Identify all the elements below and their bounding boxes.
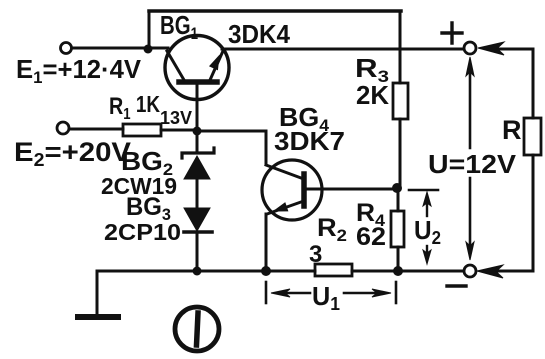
diode BG3 triangle <box>184 208 210 231</box>
wire BG3 to bottom rail <box>196 233 199 271</box>
wire bottom rail left of R2 <box>97 270 315 273</box>
svg-text:3DK4: 3DK4 <box>228 19 290 49</box>
transistor BG4 emitter lead <box>267 202 301 214</box>
arrow into minus terminal <box>477 265 503 278</box>
resistor R3 <box>393 83 408 119</box>
resistor R2 <box>315 264 352 276</box>
svg-text:2K: 2K <box>356 80 389 110</box>
arrow U=12V lower shaft <box>469 178 472 252</box>
resistor R load <box>524 118 541 155</box>
wire R4 top stem <box>397 189 400 211</box>
minus sign symbol <box>447 284 466 287</box>
svg-text:U1: U1 <box>312 281 340 314</box>
wire E2 terminal to R1 <box>70 128 123 131</box>
transistor BG4 emitter arrow <box>274 203 288 211</box>
terminal E2 <box>57 122 69 134</box>
svg-text:R: R <box>502 115 522 145</box>
transistor BG1 collector lead <box>167 51 184 80</box>
svg-text:R1 1K: R1 1K <box>109 91 160 123</box>
tick U2 top <box>409 189 438 192</box>
tick U1 right <box>395 282 398 303</box>
arrow U2 down head <box>423 250 431 264</box>
wire left vertical from top rail to E1 junction <box>148 11 151 48</box>
transistor BG4 collector lead <box>266 165 301 178</box>
transistor BG4 circle <box>262 160 322 220</box>
terminal E1 <box>61 43 72 54</box>
svg-text:BG1: BG1 <box>160 10 198 43</box>
resistor R4 <box>391 211 404 247</box>
ground bar <box>78 314 118 320</box>
wire right vertical upper to load R <box>532 155 535 271</box>
junction dot zener bottom <box>193 267 202 276</box>
arrow U2 down shaft <box>426 246 428 256</box>
junction dot BG4 emitter at rail <box>261 266 271 276</box>
wire R4 bottom stem <box>397 247 400 271</box>
svg-text:E1=+12·4V: E1=+12·4V <box>16 54 142 87</box>
arrow U1 right shaft <box>344 292 384 295</box>
transistor BG1 emitter arrow <box>210 56 219 70</box>
wire zener top stem <box>196 131 199 152</box>
wire top rail E1 bus <box>149 9 401 13</box>
wire right vertical top to plus arrow <box>496 49 533 118</box>
svg-text:2CP10: 2CP10 <box>104 219 181 245</box>
junction dot R4 bottom at rail <box>393 266 403 276</box>
arrow into plus terminal <box>478 42 504 55</box>
svg-text:3: 3 <box>309 241 322 268</box>
wire minus terminal to right vertical <box>496 270 533 273</box>
wire BG1 emitter to + terminal <box>222 48 464 51</box>
junction node 13V <box>193 127 202 136</box>
svg-text:U2: U2 <box>414 215 441 248</box>
svg-text:3DK7: 3DK7 <box>274 126 345 156</box>
resistor R1 <box>123 124 161 136</box>
wire bottom rail right of R2 to minus terminal <box>352 270 464 273</box>
transistor BG4 base bar <box>301 174 307 206</box>
transistor BG1 emitter lead <box>210 51 223 80</box>
wire BG4 base to R3/R4 node <box>305 188 397 191</box>
junction dot E1/collector <box>144 45 153 54</box>
terminal minus output <box>464 265 476 277</box>
arrow U1 right head <box>372 289 391 297</box>
figure number circled 1 <box>175 307 219 351</box>
arrow U2 up <box>426 200 428 216</box>
arrow U=12V upper shaft <box>469 64 472 148</box>
arrow U1 left shaft <box>284 292 310 295</box>
svg-text:U=12V: U=12V <box>428 149 517 179</box>
svg-text:13V: 13V <box>160 108 192 128</box>
wire 13V node to BG4 collector corner <box>197 131 266 164</box>
arrow U=12V down head <box>466 242 474 260</box>
svg-text:E2=+20V: E2=+20V <box>14 137 131 170</box>
transistor BG1 circle <box>165 36 229 100</box>
wire BG1 base lead down to 13V node <box>196 85 199 131</box>
wire E1 terminal to junction to BG1 collector <box>72 47 168 50</box>
arrow U2 up head <box>423 192 431 206</box>
wire R1 to 13V node <box>161 129 197 132</box>
svg-text:62: 62 <box>356 223 386 251</box>
wire R3 bottom to node <box>399 119 402 189</box>
figure number bar <box>197 313 199 345</box>
diode BG2 zener cathode bar <box>182 148 214 158</box>
terminal plus output <box>464 42 476 54</box>
wire R3 top stem from top rail <box>399 11 402 83</box>
plus sign symbol <box>442 23 462 43</box>
diode BG3 cathode bar <box>184 230 212 234</box>
wire between BG2 and BG3 <box>196 178 199 209</box>
transistor BG1 base bar <box>179 79 217 85</box>
arrow U=12V up head <box>466 57 474 76</box>
ground lead <box>96 271 99 314</box>
wire BG4 emitter to bottom rail <box>265 214 268 271</box>
arrow U1 left head <box>271 289 290 297</box>
tick U1 left <box>265 282 268 303</box>
junction node R3 R4 base <box>392 183 402 193</box>
diode BG2 zener triangle <box>184 156 210 179</box>
